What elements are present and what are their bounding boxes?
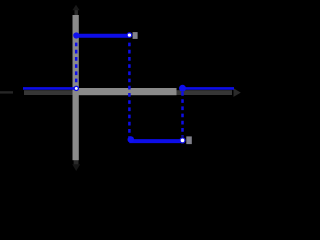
x-axis dark band: [24, 90, 232, 95]
x-axis black line left stub: [0, 91, 13, 93]
segment f=-1 on [1,2): [129, 139, 182, 143]
thick gray horizontal segment from (0,0) to (2,0): [76, 88, 177, 95]
y-axis arrowhead (top): [72, 5, 79, 10]
gray square marker right of open circle at (1,1): [133, 32, 138, 39]
y-axis arrowhead (bottom): [72, 164, 80, 171]
open point at (1,1): [127, 33, 132, 38]
open point at origin (0,0): [74, 86, 78, 90]
closed point at (2,0): [179, 85, 186, 92]
x-axis arrowhead (right): [234, 88, 241, 97]
dashed projection line x=2 from (2,0) to (2,-1): [181, 92, 184, 137]
gray square marker right of open circle at (2,-1): [186, 136, 192, 144]
segment f=1 on [0,1): [76, 34, 129, 38]
step-function plot: blue square-wave with open/closed endpoint markers on gray axes: [0, 0, 250, 188]
dashed projection line x=1 from (1,1) to (1,-1): [128, 43, 131, 138]
open point at (2,-1): [180, 138, 185, 143]
closed point at (1,-1): [128, 136, 135, 143]
y-axis black stem (bottom): [74, 160, 79, 165]
y-axis black stem (top): [75, 9, 78, 16]
segment f=0 on [2,3]: [183, 87, 234, 90]
y-axis (thick gray vertical bar, segment x=0 from y=-1.35 to 1.4): [73, 15, 79, 160]
segment f=0 on [-1,0): [23, 87, 76, 90]
dashed projection line x=0 from (0,1) to origin: [75, 43, 78, 86]
closed point at (0,1): [73, 32, 79, 38]
